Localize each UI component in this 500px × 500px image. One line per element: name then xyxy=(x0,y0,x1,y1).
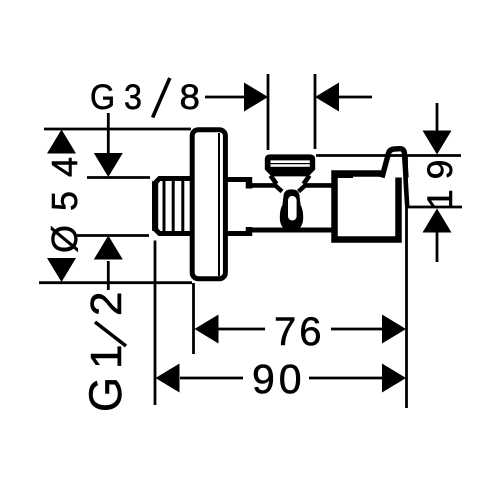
svg-text:1 9: 1 9 xyxy=(420,160,460,209)
valve seat diagonals xyxy=(274,184,307,191)
ext line thread tip (90 dim) xyxy=(154,241,157,406)
svg-text:8: 8 xyxy=(180,78,201,117)
19 dim line above xyxy=(436,103,439,131)
svg-text:90: 90 xyxy=(252,356,306,402)
internal valve insert (keyhole) xyxy=(280,189,303,230)
lever handle xyxy=(382,149,407,206)
arrow right at A xyxy=(244,83,268,112)
G1/2 leader line down xyxy=(107,261,110,290)
flange inner edge line xyxy=(218,133,220,276)
label G 1/2 rotated xyxy=(80,292,131,412)
G1/2 leader arrow up xyxy=(94,236,123,260)
90 dim arrow left xyxy=(156,364,180,393)
top dim extension line B (knob right) xyxy=(314,74,317,149)
svg-text:Ø 5 4: Ø 5 4 xyxy=(44,155,85,253)
76 dim line left xyxy=(218,328,265,331)
thread lines xyxy=(164,181,183,231)
svg-text:76: 76 xyxy=(274,310,325,354)
19 dim line below xyxy=(436,232,439,262)
G 3/8 dim line right tail xyxy=(339,96,372,99)
G 3/8 dim line left tail xyxy=(205,96,246,99)
19 arrow down xyxy=(423,131,452,155)
G3/8 leader arrow down xyxy=(94,153,123,177)
90 dim line left xyxy=(180,377,243,380)
ext line right end (76/90 dim) xyxy=(405,156,408,408)
90 dim arrow right xyxy=(382,364,406,393)
19 arrow up xyxy=(423,209,452,233)
19 top extension line xyxy=(316,154,461,157)
shut-off knob cap xyxy=(265,154,315,184)
G3/8 leader line down xyxy=(107,113,110,155)
svg-text:2: 2 xyxy=(82,292,131,316)
flange top extension line xyxy=(44,128,191,131)
76 dim arrow right xyxy=(382,315,406,344)
outlet compression fitting xyxy=(332,174,399,240)
threaded wall connector G1/2 xyxy=(155,179,193,234)
90 dim line right xyxy=(309,377,384,380)
dia54 arrow down xyxy=(47,258,76,282)
thread bottom edge extension xyxy=(77,234,149,237)
knob stem funnel sides xyxy=(271,176,310,185)
svg-text:1: 1 xyxy=(82,345,131,369)
valve body xyxy=(248,185,334,230)
svg-text:G 3: G 3 xyxy=(90,78,142,117)
wall flange xyxy=(192,130,225,279)
76 dim line right xyxy=(331,328,384,331)
top dim extension line A (knob left) xyxy=(267,74,270,150)
arrow left at B xyxy=(315,83,339,112)
neck between flange and body xyxy=(227,177,249,236)
thread top edge extension xyxy=(87,176,150,179)
19 bottom extension line xyxy=(406,206,462,209)
svg-text:G: G xyxy=(80,377,131,412)
ext line flange left (76 dim) xyxy=(192,283,195,354)
dia54 arrow up xyxy=(47,130,76,154)
flange bottom extension line xyxy=(39,281,192,284)
76 dim arrow left xyxy=(195,315,219,344)
